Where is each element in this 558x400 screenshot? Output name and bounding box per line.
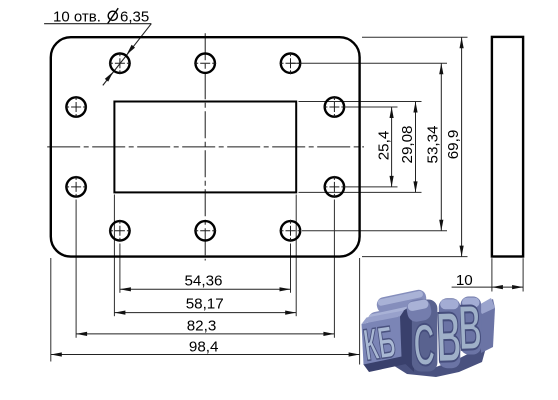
svg-text:98,4: 98,4 [189,339,219,356]
svg-text:69,9: 69,9 [445,130,462,160]
hole H6 [66,177,85,196]
extension lines bottom [51,195,523,365]
extension row3 y=186.9 [346,186,398,188]
logo letter B2 slab top highlight [462,298,480,308]
extension side-view left x=491.9 [491,258,493,291]
extension top edge y=37.2 [362,36,468,38]
hole H10 [281,221,300,240]
svg-text:В: В [435,297,462,377]
leader arrow lower [105,72,114,82]
svg-text:С: С [412,312,436,378]
svg-text:10: 10 [456,272,473,289]
logo KB block bottom shadow [364,357,407,373]
extension plate left x=50.8 [50,258,52,362]
svg-text:25,4: 25,4 [375,131,392,161]
hole H5 [325,97,344,116]
leader note 10 отв. d6,35 [44,8,151,85]
svg-text:6,35: 6,35 [120,8,149,25]
hole H3 [281,54,300,73]
hole H7 [325,177,344,196]
logo KB SVV 3D emblem [361,288,495,378]
extension side-view right x=523.1 [522,258,524,291]
hole H8 [110,221,129,240]
logo dark gap between KB and C [398,304,414,372]
dimension 69,9 line [445,37,464,256]
logo tube A [375,288,427,314]
extension plate right x=359.6 [359,258,361,365]
waveguide aperture rectangle [114,102,296,193]
svg-text:58,17: 58,17 [186,296,224,313]
diameter symbol [108,11,117,20]
extension hole col x=119.9 [119,244,121,293]
logo KB block top face [362,311,405,325]
svg-text:54,36: 54,36 [184,272,222,289]
dimension 54,36 line [120,272,291,291]
extension aperture right x=296.2 [295,195,297,317]
hole H9 [196,221,215,240]
extension lines right side [291,37,468,256]
leader underline [44,23,151,25]
logo letter C slab [412,300,438,372]
dimension 58,17 line [114,296,296,315]
logo letter B1 slab top highlight [440,299,459,309]
centerline horizontal axis [47,146,364,148]
dimension 10 line (side view thickness) [452,272,523,289]
hole H2 [196,54,215,73]
dimension 25,4 line [375,107,393,187]
extension top hole row y=63.2 [291,62,448,64]
logo letter C slab top cap [405,297,433,323]
logo right back slab top [477,298,495,314]
extension side col x=334.4 [333,200,335,338]
svg-text:29,08: 29,08 [399,125,416,163]
hole circles [66,54,344,241]
extension bottom edge y=256.6 [362,256,468,258]
svg-text:10 отв.: 10 отв. [53,8,101,25]
extension row2 y=107 [346,106,398,108]
hole center marks [65,52,345,242]
hole H1 [110,54,129,73]
dimension 98,4 line [51,339,360,357]
extension bottom hole row y=230.8 [302,230,447,232]
leader line [103,24,152,86]
extension aperture top y=101.5 [299,101,422,103]
dimension 29,08 line [399,102,418,193]
centerline vertical axis [204,33,206,260]
plate outline [51,37,360,256]
hole H4 [66,97,85,116]
extension aperture left x=114.4 [113,195,115,317]
svg-text:53,34: 53,34 [425,125,442,163]
dimension 82,3 line [76,317,334,336]
logo letter B2 slab [461,297,482,355]
leader arrow upper [127,45,136,55]
side view outline [492,37,523,257]
extension hole col x=290.5 [290,244,292,293]
extension side col x=76.1 [75,200,77,338]
logo base shadow mass [388,344,487,377]
extension aperture bottom y=192.4 [299,191,422,193]
svg-text:82,3: 82,3 [187,317,217,334]
dimension 53,34 line [425,63,444,231]
logo letter B1 slab [439,298,461,368]
logo right back slab side [480,299,495,353]
logo KB block face [362,317,402,366]
logo tube B [366,303,423,332]
